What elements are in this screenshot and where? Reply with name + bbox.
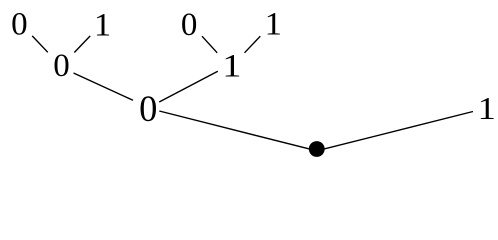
svg-text:0: 0 bbox=[181, 7, 198, 43]
svg-text:0: 0 bbox=[139, 88, 157, 129]
svg-text:0: 0 bbox=[11, 7, 28, 43]
svg-text:1: 1 bbox=[222, 48, 241, 84]
svg-text:1: 1 bbox=[265, 6, 282, 42]
svg-text:1: 1 bbox=[478, 91, 496, 126]
svg-text:1: 1 bbox=[94, 7, 111, 43]
svg-text:0: 0 bbox=[53, 48, 70, 84]
